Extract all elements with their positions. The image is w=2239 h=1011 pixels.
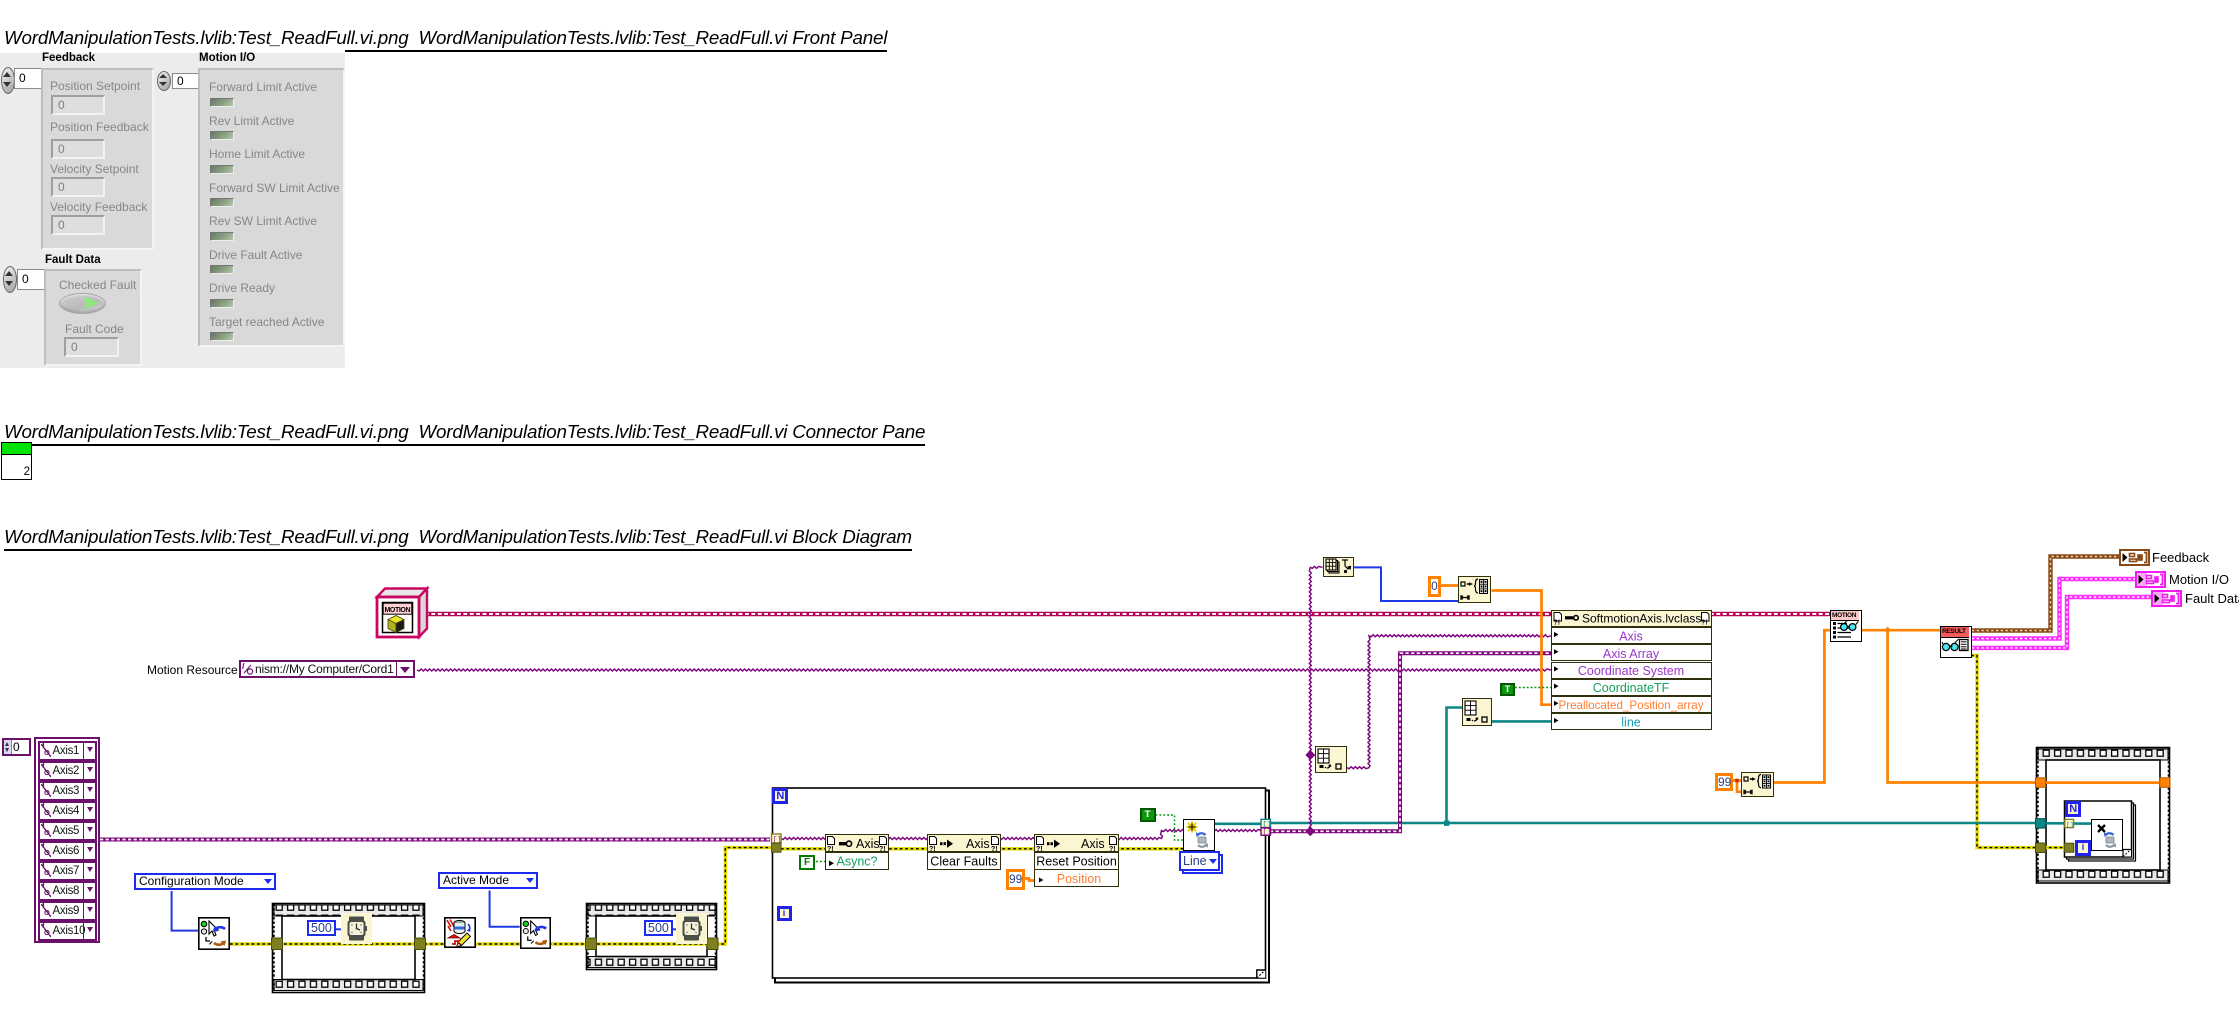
I/O name constant nism://My Computer/Cord1: [239, 660, 415, 678]
tunnel: for loop right teal []: [1261, 819, 1271, 829]
LED Target reached Active: [210, 332, 234, 341]
LED Home Limit Active: [210, 165, 234, 174]
tunnel: right sequence teal: [2036, 819, 2046, 829]
wire: purple zigzag vertical to Array Size: [1309, 566, 1322, 831]
for loop (main, N=axes): [773, 788, 1270, 983]
enum constant Active Mode: [438, 872, 538, 889]
label Feedback: [42, 52, 95, 64]
wire: orange 99 to initialize array 2: [1732, 781, 1741, 792]
svg-text:Preallocated_Position_array: Preallocated_Position_array: [1558, 699, 1703, 712]
wire: purple stub junction to index array input: [1347, 635, 1551, 769]
cluster Motion I/O: [198, 68, 345, 347]
I/O constant Axis1: [38, 741, 97, 761]
loop count terminal N: [772, 788, 788, 804]
index array (line element): [1462, 698, 1493, 726]
wire: orange initialize array 2 up to MOTION read VI: [1774, 630, 1832, 782]
wire: purple wavy index array out to Axis row: [1310, 755, 1315, 756]
indicator terminal Motion I/O: [2135, 571, 2166, 588]
indicator terminal Fault Data: [2151, 590, 2182, 607]
numeric constant 99 (position): [1006, 869, 1025, 890]
sequence structure 2 (wait 500 #2): [587, 904, 717, 970]
numeric Velocity Setpoint: [51, 177, 105, 197]
array index spinner (Fault Data): [3, 266, 17, 293]
numeric constant 99 (right): [1715, 773, 1733, 791]
label Checked Fault: [59, 278, 136, 292]
title front panel: [4, 27, 887, 49]
boolean constant T (CoordinateTF): [1500, 683, 1515, 696]
cluster Feedback: [41, 68, 154, 250]
svg-text:I: I: [242, 662, 245, 671]
wire: green dotted F to Async row: [816, 861, 825, 863]
junction: red dot at 99 branch: [1735, 779, 1739, 783]
wire: teal inside right sequence: [2046, 822, 2065, 825]
wire: orange 99b to Position row: [1023, 879, 1034, 881]
LED Drive Ready: [210, 299, 234, 308]
LED Rev Limit Active: [210, 131, 234, 140]
wire: purple wavy inside for loop (axis ref through nodes to Line VI): [781, 830, 1262, 840]
tunnel: right sequence olive: [2036, 843, 2046, 853]
I/O constant Axis3: [38, 781, 97, 801]
label Motion Resource: [147, 663, 238, 677]
svg-text:?!: ?!: [1554, 620, 1561, 627]
label Motion I/O: [199, 52, 255, 64]
LED Forward Limit Active: [210, 98, 234, 107]
subVI multiply/motor inside inner loop: [2091, 819, 2123, 851]
array size function: [1323, 557, 1354, 577]
property node SoftmotionAxis.lvclass: [1551, 610, 1712, 732]
wire: orange initialize array to Preallocated row: [1492, 591, 1552, 705]
svg-text:[]: []: [2066, 821, 2074, 828]
axis array index box: [2, 738, 31, 756]
wire: purple chain axis array constant to for loop tunnel: [100, 838, 770, 842]
tunnel: for loop right purple []: [1261, 828, 1271, 837]
ring constant Line: [1182, 854, 1223, 874]
I/O constant Axis10: [38, 921, 97, 941]
VI icon: switch to Active Mode: [520, 917, 551, 954]
tunnel: sequence1 left olive: [272, 938, 283, 950]
tunnel: inner loop teal []: [2065, 819, 2074, 828]
svg-text:?!: ?!: [1109, 846, 1116, 853]
junction: teal dot: [1444, 821, 1449, 826]
label Position Setpoint: [50, 79, 140, 93]
subVI Line (create line resource): [1183, 819, 1215, 851]
boolean constant F: [799, 855, 815, 870]
wire: error from RESULT down to right sequence and inner loop: [1971, 656, 2066, 848]
yellow cube glyph: [388, 616, 404, 624]
VI icon: clear faults: [444, 917, 476, 953]
label Forward Limit Active: [209, 80, 317, 94]
I/O constant Axis6: [38, 841, 97, 861]
label Position Feedback: [50, 120, 149, 134]
svg-text:Clear Faults: Clear Faults: [930, 854, 997, 868]
tunnel: for loop left purple []: [772, 834, 782, 845]
svg-text:Axis Array: Axis Array: [1603, 647, 1660, 661]
axis array shell: [34, 737, 100, 943]
wire: orange inside right sequence: [2046, 781, 2161, 784]
svg-text:?!: ?!: [879, 846, 886, 853]
invoke node Axis / Reset Position / Position: [1034, 834, 1119, 887]
VI icon: switch to Configuration Mode: [198, 917, 230, 955]
wire: blue 500 to wait #2: [669, 928, 676, 930]
tunnel: inner loop olive (error): [2064, 843, 2074, 852]
label Fault Data: [2185, 591, 2239, 606]
junction: orange dot after MOTION read: [1884, 627, 1891, 634]
svg-text:?!: ?!: [1036, 846, 1043, 853]
wire: error cluster lower run (mode node through sequences up to for loop): [230, 848, 772, 944]
svg-text:Reset Position: Reset Position: [1036, 854, 1117, 868]
iteration terminal i: [777, 906, 792, 921]
svg-text:MOTION: MOTION: [385, 607, 411, 614]
svg-text:Axis: Axis: [856, 837, 880, 851]
I/O constant Axis9: [38, 901, 97, 921]
inner loop i terminal: [2075, 840, 2091, 856]
wire: blue array size to initialize array: [1353, 567, 1458, 601]
property node Axis / Async?: [825, 834, 889, 869]
wire: blue 500 to wait #1: [332, 928, 341, 930]
label Fault Data: [45, 254, 101, 266]
label Velocity Setpoint: [50, 162, 139, 176]
I/O constant Axis2: [38, 761, 97, 781]
I/O constant Axis5: [38, 821, 97, 841]
wait (ms) VI #2: [676, 913, 707, 944]
LED Rev SW Limit Active: [210, 232, 234, 241]
tunnel: for loop left olive (error): [772, 843, 782, 852]
svg-text:SoftmotionAxis.lvclass: SoftmotionAxis.lvclass: [1582, 612, 1701, 626]
label Forward SW Limit Active: [209, 181, 340, 195]
RESULT read VI icon: [1940, 626, 1972, 658]
index array (axis element): [1315, 746, 1347, 773]
label Rev SW Limit Active: [209, 214, 317, 228]
I/O constant Axis7: [38, 861, 97, 881]
numeric Fault Code: [64, 337, 119, 357]
sequence structure right (bottom-right): [2037, 748, 2170, 884]
label Drive Fault Active: [209, 248, 302, 262]
I/O constant Axis4: [38, 801, 97, 821]
label Feedback: [2152, 550, 2209, 565]
wire: orange branch down to right sequence: [1888, 630, 2037, 782]
boolean constant T (line selector): [1140, 808, 1156, 822]
cluster Fault Data: [44, 269, 142, 366]
for loop (inner, stacked pages): [2065, 801, 2136, 861]
inner loop N terminal: [2065, 801, 2081, 817]
svg-text:Position: Position: [1057, 872, 1102, 886]
LED button Checked Fault: [59, 293, 106, 314]
wire: orange 0 constant to initialize array: [1441, 584, 1458, 587]
wire: blue Configuration Mode enum down to mode VI: [172, 891, 198, 931]
junction: purple diamond at index array input: [1305, 750, 1315, 760]
label Rev Limit Active: [209, 114, 294, 128]
sequence structure 1 (wait 500 #1): [273, 904, 425, 993]
svg-text:Coordinate System: Coordinate System: [1578, 664, 1684, 678]
wire: teal line ref inside loop: [1215, 822, 1262, 825]
label Motion I/O: [2169, 572, 2229, 587]
wire: green dotted T to Line VI selector: [1156, 815, 1184, 840]
tunnel: sequence2 right olive: [707, 938, 718, 950]
wire: teal index array out to line row: [1492, 720, 1551, 723]
title connector pane: [4, 421, 925, 443]
wire: pink hatched Motion I/O cluster: [1972, 579, 2135, 639]
tunnel: right sequence orange right: [2160, 778, 2170, 788]
array index spinner (Motion I/O): [157, 71, 171, 91]
junction: purple diamond at bottom chain: [1305, 826, 1315, 836]
wire: purple wavy Motion Resource to Coordinate System row: [417, 669, 1551, 671]
title block diagram: [4, 526, 912, 548]
wire: purple chain loop tunnel to Axis Array row: [1270, 653, 1551, 831]
initialize array #2: [1741, 772, 1774, 798]
numeric constant 0: [1428, 576, 1441, 597]
wire: teal long run to right sequence: [1270, 822, 2037, 825]
tunnel: sequence1 right olive: [415, 938, 426, 950]
svg-text:Async?: Async?: [837, 854, 878, 868]
wire: pink hatched Fault Data cluster: [1972, 597, 2151, 648]
indicator terminal Feedback: [2119, 549, 2150, 566]
wire: orange MOTION read out to RESULT: [1862, 629, 1940, 632]
I/O constant Axis8: [38, 881, 97, 901]
wire: blue Active Mode enum down to mode VI 2: [490, 891, 520, 927]
wire: brown hatched Feedback cluster: [1972, 557, 2119, 631]
invoke node Axis / Clear Faults: [927, 834, 1001, 869]
svg-text:?!: ?!: [929, 846, 936, 853]
svg-text:[]: []: [1263, 829, 1271, 837]
numeric constant 500 #1: [307, 920, 336, 937]
wire: teal branch up to index array: [1447, 708, 1463, 824]
connector pane icon: [1, 442, 32, 480]
numeric Velocity Feedback: [51, 215, 105, 235]
enum constant Configuration Mode: [134, 873, 276, 890]
svg-text:line: line: [1621, 716, 1641, 730]
svg-text:?!: ?!: [991, 846, 998, 853]
tunnel: right sequence orange left: [2036, 778, 2046, 788]
array index spinner (Feedback): [1, 67, 15, 94]
MOTION read VI icon: [1830, 610, 1862, 642]
label Drive Ready: [209, 281, 275, 295]
label Fault Code: [65, 322, 124, 336]
svg-text:?!: ?!: [1701, 620, 1708, 627]
label Target reached Active: [209, 315, 324, 329]
label Velocity Feedback: [50, 200, 147, 214]
svg-text:Axis: Axis: [966, 837, 990, 851]
svg-text:CoordinateTF: CoordinateTF: [1593, 681, 1670, 695]
wire: error inside for loop: [781, 847, 1183, 850]
wire: teal inner loop to subVI: [2074, 822, 2091, 825]
wait (ms) VI #1: [341, 913, 372, 944]
svg-text:Axis: Axis: [1081, 837, 1105, 851]
initialize array #1: [1458, 576, 1491, 603]
wire: crimson chain property node to MOTION read VI: [1710, 612, 1832, 617]
wire: crimson chain MOTION resource class (3D box to property node): [425, 612, 1551, 617]
MOTION resource 3D box: [377, 589, 427, 638]
numeric Position Feedback: [51, 139, 105, 159]
wire: green dotted T to CoordinateTF row: [1515, 687, 1551, 689]
svg-text:?!: ?!: [827, 846, 834, 853]
LED Forward SW Limit Active: [210, 198, 234, 207]
numeric Position Setpoint: [51, 95, 105, 115]
LED Drive Fault Active: [210, 265, 234, 274]
label Home Limit Active: [209, 147, 305, 161]
numeric constant 500 #2: [644, 920, 673, 937]
svg-text:Axis: Axis: [1619, 630, 1643, 644]
tunnel: sequence2 left olive: [586, 938, 597, 950]
